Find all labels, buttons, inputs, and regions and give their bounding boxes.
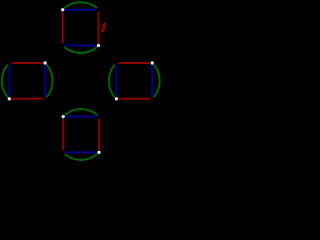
- left circle group: center (27.2,80.9): [2, 61, 53, 101]
- corner gap BL: [61, 150, 66, 155]
- arc right: [152, 63, 159, 99]
- corner gap BR: [150, 97, 155, 102]
- corner gap BL: [7, 97, 12, 102]
- arc top: [63, 109, 99, 116]
- corner gap TR: [97, 114, 102, 119]
- white dot BR: [96, 43, 100, 47]
- right circle group: center (134.3,80.9): [109, 61, 160, 101]
- white dot BL: [114, 97, 118, 101]
- square blue vertical edges: [116, 63, 152, 99]
- arc bottom: [63, 152, 99, 159]
- corner gap BR: [96, 43, 101, 48]
- corner gap TL: [7, 61, 12, 66]
- square blue vertical edges: [9, 63, 45, 99]
- white dot BR: [97, 150, 101, 154]
- corner gap BR: [43, 97, 48, 102]
- corner gap TR: [150, 61, 155, 66]
- corner gap TL: [61, 114, 66, 119]
- white dot BL: [7, 97, 11, 101]
- bottom circle group: center (81.1,134.5): [61, 109, 101, 160]
- corner gap TR: [43, 61, 48, 66]
- corner gap TL: [114, 61, 119, 66]
- corner gap BR: [97, 150, 102, 155]
- arc left: [109, 63, 116, 99]
- white dot TL: [61, 8, 65, 12]
- square red horizontal edges: [116, 63, 152, 99]
- label ell (red script l): [101, 23, 105, 32]
- arc top: [63, 2, 99, 9]
- corner gap TR: [96, 7, 101, 12]
- corner gap TL: [60, 7, 65, 12]
- square red vertical edges: [63, 117, 99, 153]
- top circle group: center (80.6,27.6) r=25.3 h=17.9: [60, 2, 100, 53]
- arc bottom: [63, 46, 99, 53]
- white dot TL: [61, 115, 65, 119]
- white dot TR: [150, 61, 154, 65]
- corner gap BL: [114, 97, 119, 102]
- square red horizontal edges: [9, 63, 45, 99]
- square blue horizontal edges: [63, 117, 99, 153]
- white dot TR: [43, 61, 47, 65]
- arc left: [2, 63, 9, 99]
- square blue horizontal edges: [63, 10, 99, 46]
- arc right: [45, 63, 52, 99]
- square red vertical edges: [63, 10, 99, 46]
- corner gap BL: [60, 43, 65, 48]
